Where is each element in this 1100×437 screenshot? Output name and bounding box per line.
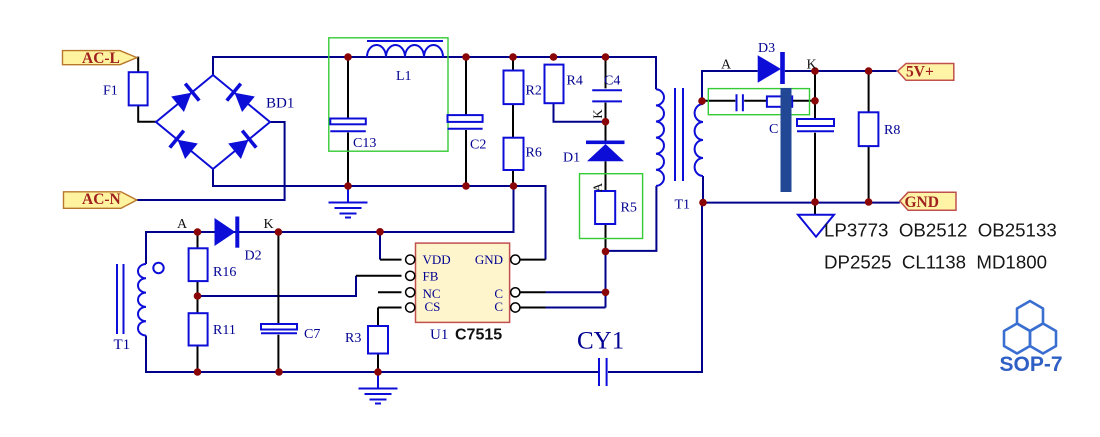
svg-text:C4: C4 [604,74,620,89]
svg-text:VDD: VDD [423,252,451,267]
svg-text:GND: GND [905,194,939,211]
svg-text:AC-N: AC-N [82,191,121,208]
svg-text:R4: R4 [567,74,583,89]
svg-text:5V+: 5V+ [906,63,934,80]
svg-text:K: K [264,217,274,232]
svg-text:K: K [590,109,605,119]
svg-text:A: A [590,182,605,192]
svg-text:R8: R8 [884,123,900,138]
svg-text:R3: R3 [345,331,361,346]
svg-text:T1: T1 [675,198,691,213]
svg-text:D2: D2 [245,249,262,264]
svg-text:DP2525 CL1138 MD1800: DP2525 CL1138 MD1800 [824,252,1047,273]
svg-text:C: C [494,299,503,314]
svg-text:U1: U1 [430,327,448,343]
svg-text:A: A [721,58,732,73]
svg-text:CS: CS [425,299,441,314]
svg-text:FB: FB [423,268,439,283]
svg-text:C2: C2 [470,138,486,153]
svg-text:A: A [177,217,188,232]
svg-text:LP3773 OB2512 OB25133: LP3773 OB2512 OB25133 [824,219,1057,240]
svg-text:GND: GND [475,252,503,267]
svg-text:R11: R11 [213,323,236,338]
svg-text:L1: L1 [396,69,412,84]
svg-text:D3: D3 [758,41,775,56]
svg-text:R6: R6 [526,146,542,161]
svg-text:CY1: CY1 [577,327,624,354]
svg-text:SOP-7: SOP-7 [999,353,1062,376]
svg-text:K: K [807,58,817,73]
svg-text:C7: C7 [304,327,320,342]
svg-text:C7515: C7515 [455,327,502,344]
svg-text:C: C [769,122,778,137]
svg-text:T1: T1 [114,337,131,353]
svg-text:D1: D1 [563,151,580,166]
svg-text:AC-L: AC-L [82,50,120,67]
svg-text:R16: R16 [213,265,236,280]
svg-text:R2: R2 [526,84,542,99]
svg-text:C13: C13 [353,136,376,151]
svg-text:F1: F1 [103,84,118,99]
svg-text:BD1: BD1 [266,96,294,112]
svg-text:R5: R5 [621,201,637,216]
